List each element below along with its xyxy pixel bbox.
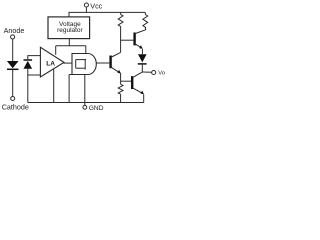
schmitt trigger U3 — [69, 54, 96, 75]
wire schmitt ground left — [68, 75, 70, 103]
transistor Q1 — [111, 52, 121, 73]
wire photodiode anode down — [27, 69, 29, 75]
wire Q1 collector — [120, 26, 122, 52]
resistor R2 — [143, 12, 148, 29]
svg-text:Anode: Anode — [4, 26, 25, 35]
wire regulator output stub — [68, 39, 70, 46]
wire photodiode cathode to LA input — [28, 56, 41, 60]
terminal Vo — [152, 70, 156, 74]
svg-text:Vcc: Vcc — [90, 1, 102, 10]
transistor Q3 — [135, 30, 146, 49]
wire ground rail — [28, 102, 144, 104]
wire schmitt ground mid — [84, 75, 86, 103]
svg-text:regulator: regulator — [57, 27, 83, 34]
wire supply distribution bar — [56, 45, 86, 47]
wire Q3 emitter to diode — [141, 49, 143, 54]
wire photodiode node to ground rail — [27, 75, 29, 103]
terminal Cathode — [11, 97, 15, 101]
transistor Q2 — [132, 72, 144, 94]
wire LA output — [64, 62, 72, 64]
wire Q1 emitter to Q2 base — [121, 80, 132, 82]
terminal Anode — [11, 35, 15, 39]
wire Q1 collector to Q3 base — [121, 39, 134, 41]
svg-text:GND: GND — [89, 105, 104, 112]
wire cathode lead — [12, 70, 14, 97]
terminal GND — [83, 103, 87, 110]
resistor R1 — [118, 12, 123, 26]
photodiode D2 — [24, 60, 33, 69]
svg-text:LA: LA — [46, 60, 55, 67]
resistor R3 — [118, 84, 123, 102]
wire Vo node to terminal — [142, 71, 151, 73]
wire supply to schmitt — [85, 46, 87, 54]
label Voltage regulator — [57, 21, 83, 34]
wire LA supply — [55, 46, 57, 55]
wire Q2 emitter down — [143, 94, 145, 102]
wire Q3 collector — [145, 27, 147, 30]
voltage regulator U2 — [48, 17, 90, 39]
wire diode to Vo node — [141, 65, 143, 72]
hysteresis symbol — [76, 60, 86, 70]
wire Vcc rail — [69, 12, 145, 17]
LED D1 — [7, 61, 19, 69]
op-amp U1 LA amplifier — [40, 47, 64, 77]
wire schmitt output to Q1 base — [96, 62, 109, 64]
svg-text:Cathode: Cathode — [2, 102, 29, 111]
wire photodiode anode to LA — [28, 74, 41, 76]
svg-text:Vo: Vo — [158, 71, 165, 77]
wire LA ground — [53, 69, 55, 103]
wire Q1 emitter down — [120, 73, 122, 84]
wire anode lead — [12, 39, 14, 61]
diode D3 — [138, 54, 147, 64]
terminal Vcc — [84, 3, 88, 12]
